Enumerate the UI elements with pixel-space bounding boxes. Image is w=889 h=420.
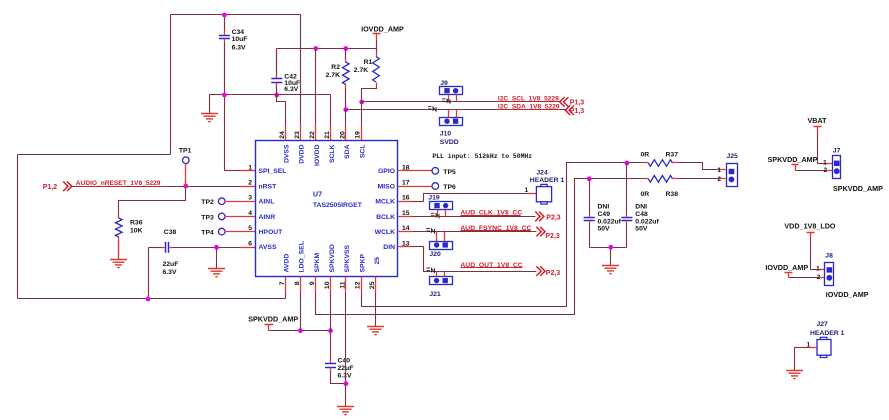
node C49 junction xyxy=(587,176,592,181)
svg-text:nRST: nRST xyxy=(259,183,278,190)
svg-text:R37: R37 xyxy=(666,152,679,159)
svg-text:U7: U7 xyxy=(313,190,322,199)
svg-text:BCLK: BCLK xyxy=(376,214,395,221)
wire SCLK drop to pin 21 xyxy=(330,95,332,125)
svg-text:DNI: DNI xyxy=(635,203,647,210)
wire SPKVSS pin 11 drop xyxy=(345,277,347,293)
wire IOVDD drop to pin 22 xyxy=(315,49,317,125)
resistor R37 0R xyxy=(644,162,649,164)
svg-text:SPKP: SPKP xyxy=(360,254,367,273)
svg-text:1: 1 xyxy=(248,164,252,171)
svg-text:HEADER 1: HEADER 1 xyxy=(530,177,565,184)
svg-text:2: 2 xyxy=(248,180,252,187)
svg-text:J21: J21 xyxy=(429,291,441,298)
capacitor C48 DNI xyxy=(626,163,628,214)
svg-text:TP5: TP5 xyxy=(443,169,456,176)
svg-text:IOVDD_AMP: IOVDD_AMP xyxy=(826,290,869,299)
wire SDA drop to pin 20 xyxy=(345,110,347,125)
svg-text:TAS2505IRGET: TAS2505IRGET xyxy=(313,202,363,209)
wire AUD_OUT net (DIN pin 13) xyxy=(399,246,413,248)
svg-text:6: 6 xyxy=(248,240,252,247)
svg-text:6.3V: 6.3V xyxy=(232,45,246,52)
svg-text:IOVDD_AMP: IOVDD_AMP xyxy=(361,25,404,34)
node IOVDD pin junction xyxy=(313,46,318,51)
svg-text:6.3V: 6.3V xyxy=(284,86,298,93)
svg-text:PLL input: 512kHz to 50MHz: PLL input: 512kHz to 50MHz xyxy=(432,153,532,160)
svg-text:IOVDD_AMP: IOVDD_AMP xyxy=(765,263,808,272)
node C42 bottom junction xyxy=(274,93,279,98)
wire MCLK to J24 xyxy=(399,201,413,203)
svg-text:1: 1 xyxy=(816,265,820,272)
svg-text:SVDD: SVDD xyxy=(440,139,459,146)
svg-text:20: 20 xyxy=(339,131,346,139)
svg-text:LDO_SEL: LDO_SEL xyxy=(299,241,306,272)
svg-text:SPI_SEL: SPI_SEL xyxy=(259,168,287,175)
wire I2C_SDA net xyxy=(346,109,566,111)
resistor R38 0R xyxy=(644,178,649,180)
svg-text:J10: J10 xyxy=(440,131,452,138)
svg-text:10K: 10K xyxy=(130,228,143,235)
svg-text:TP3: TP3 xyxy=(201,214,214,221)
wire AVSS net xyxy=(173,247,241,249)
node C48 junction xyxy=(625,161,630,166)
node AVSS ground junction xyxy=(214,245,219,250)
capacitor C42 xyxy=(276,49,278,75)
svg-text:0R: 0R xyxy=(641,152,650,159)
wire J27 pin 1 to ground xyxy=(807,347,817,349)
svg-text:SPKVSS: SPKVSS xyxy=(344,244,351,272)
svg-text:DVDD: DVDD xyxy=(299,144,306,163)
svg-text:J8: J8 xyxy=(825,252,833,259)
wire I2C_SCL net xyxy=(362,101,560,103)
resistor R1 2.7K xyxy=(376,49,378,53)
resistor R36 10K xyxy=(118,214,120,219)
ground xyxy=(216,248,218,269)
svg-text:2.7K: 2.7K xyxy=(354,67,368,74)
capacitor C34 xyxy=(224,15,226,31)
svg-text:1: 1 xyxy=(717,167,721,174)
wire DVSS jog to pin 24 xyxy=(277,95,286,125)
svg-text:SPKVDD: SPKVDD xyxy=(329,244,336,272)
svg-text:0.022uf: 0.022uf xyxy=(635,218,659,225)
test point TP6 (MISO pin 17) xyxy=(399,186,433,188)
test point TP5 (GPIO pin 18) xyxy=(399,170,433,172)
off-page connector P1,3 (SCL) xyxy=(560,97,569,107)
svg-text:15: 15 xyxy=(402,210,410,217)
svg-text:AVDD: AVDD xyxy=(284,254,291,273)
svg-text:MISO: MISO xyxy=(378,183,395,190)
wire SPKM net (pin 9) xyxy=(315,277,317,293)
svg-text:2: 2 xyxy=(717,176,721,183)
svg-text:6.3V: 6.3V xyxy=(163,269,177,276)
svg-text:GPIO: GPIO xyxy=(378,168,395,175)
ground xyxy=(610,248,612,266)
svg-text:17: 17 xyxy=(402,180,410,187)
svg-text:2.7K: 2.7K xyxy=(326,72,340,79)
ground xyxy=(110,260,127,268)
capacitor C40 xyxy=(330,360,332,364)
node R2 top junction xyxy=(343,46,348,51)
wire ground rail y=95 xyxy=(210,94,331,96)
jumper J10 xyxy=(440,118,463,126)
svg-text:C40: C40 xyxy=(338,357,351,364)
svg-text:7: 7 xyxy=(279,281,286,285)
jumper J21 xyxy=(427,268,435,272)
svg-text:AVSS: AVSS xyxy=(259,244,277,251)
svg-text:2: 2 xyxy=(817,274,821,281)
svg-text:25: 25 xyxy=(374,257,381,265)
svg-text:DNI: DNI xyxy=(598,203,610,210)
svg-text:4: 4 xyxy=(248,210,252,217)
svg-text:P1,3: P1,3 xyxy=(570,100,585,107)
svg-text:22uF: 22uF xyxy=(163,261,179,268)
wire DVDD drop to pin 23 xyxy=(300,15,302,125)
svg-text:SCLK: SCLK xyxy=(329,144,336,163)
wire IOVDD rail y=48.5 xyxy=(277,48,377,50)
svg-text:SDA: SDA xyxy=(344,144,351,158)
wire VDD_1V8_LDO to J8 pin 1 xyxy=(811,269,817,271)
svg-text:P2,3: P2,3 xyxy=(546,270,561,277)
svg-text:J20: J20 xyxy=(429,251,441,258)
svg-text:P2,3: P2,3 xyxy=(546,214,561,221)
wire AUD_FSYNC net (WCLK pin 14) xyxy=(399,231,413,233)
svg-text:J24: J24 xyxy=(536,169,548,176)
wire IOVDD_AMP to J8 pin 2 xyxy=(789,277,817,279)
wire SPI_SEL feed x=224.4 xyxy=(224,95,226,171)
svg-text:TP4: TP4 xyxy=(201,230,214,237)
svg-text:0R: 0R xyxy=(641,191,650,198)
svg-text:IOVDD: IOVDD xyxy=(314,144,321,166)
node SPKVSS/C40 junction xyxy=(344,381,349,386)
wire VBAT to J7 pin 1 xyxy=(818,163,825,165)
svg-text:C49: C49 xyxy=(598,211,611,218)
svg-text:TP1: TP1 xyxy=(179,147,192,154)
svg-text:24: 24 xyxy=(279,131,286,139)
svg-text:J19: J19 xyxy=(428,194,440,201)
svg-text:J7: J7 xyxy=(833,147,841,154)
svg-text:SPKVDD_AMP: SPKVDD_AMP xyxy=(833,184,883,193)
svg-text:0.022uf: 0.022uf xyxy=(598,218,622,225)
wire C40 bottom jog xyxy=(331,372,346,384)
wire SPKVDD_AMP to J7 pin 2 xyxy=(796,170,825,172)
svg-text:50V: 50V xyxy=(635,226,648,233)
wire thermal pad 25 to ground xyxy=(375,277,377,293)
svg-text:SCL: SCL xyxy=(360,145,367,159)
wire C38 riser x=148 xyxy=(148,248,150,299)
svg-text:19: 19 xyxy=(355,131,362,139)
resistor R2 2.7K xyxy=(345,49,347,59)
wire R37 to J25 pin 1 xyxy=(678,163,718,170)
wire SCL drop to pin 19 xyxy=(361,102,363,125)
svg-text:R1: R1 xyxy=(364,59,373,66)
svg-text:SPKM: SPKM xyxy=(314,253,321,273)
svg-text:DVSS: DVSS xyxy=(284,144,291,163)
wire SPKVDD_AMP rail y=330.7 xyxy=(269,330,331,332)
svg-text:12: 12 xyxy=(355,281,362,289)
wire AVDD pin 7 drop xyxy=(285,293,287,299)
wire AVDD/DVDD top rail xyxy=(171,14,301,16)
wire LDO_SEL pin 8 drop xyxy=(300,277,302,293)
wire far-left riser x=17.6 xyxy=(17,155,19,299)
svg-text:J27: J27 xyxy=(817,321,829,328)
off-page connector P1,3 (SDA) xyxy=(565,105,574,115)
jumper J20 xyxy=(427,229,435,233)
IC U7 TAS2505IRGET body xyxy=(256,141,398,277)
svg-text:6.3V: 6.3V xyxy=(338,373,352,380)
svg-text:1: 1 xyxy=(823,159,827,166)
node LDO_SEL junction xyxy=(298,328,303,333)
wire AUD_CLK net (BCLK pin 15) xyxy=(399,216,413,218)
node C34 bottom junction xyxy=(222,93,227,98)
svg-text:1: 1 xyxy=(525,187,529,194)
svg-text:VDD_1V8_LDO: VDD_1V8_LDO xyxy=(784,222,836,231)
off-page connector P2,3 (AUD_CLK) xyxy=(535,212,544,222)
svg-text:3: 3 xyxy=(248,195,252,202)
off-page connector P2,3 (AUD_OUT) xyxy=(536,266,545,276)
off-page connector P2,3 (AUD_FSYNC) xyxy=(536,227,545,237)
svg-text:10uF: 10uF xyxy=(232,36,248,43)
svg-text:SPKVDD_AMP: SPKVDD_AMP xyxy=(768,155,818,164)
wire R1 bottom jog to SCL xyxy=(362,87,377,102)
svg-text:MCLK: MCLK xyxy=(375,199,395,206)
node cap ground junction xyxy=(608,245,613,250)
svg-text:AINR: AINR xyxy=(259,214,276,221)
node SPKVDD junction xyxy=(328,328,333,333)
svg-text:16: 16 xyxy=(402,195,410,202)
wire y=154.8 left jog xyxy=(18,154,171,156)
svg-text:P1,2: P1,2 xyxy=(43,184,58,191)
node C34 top junction xyxy=(222,13,227,18)
node C38/AVDD junction xyxy=(146,297,151,302)
ground xyxy=(367,327,384,335)
svg-text:R36: R36 xyxy=(130,220,143,227)
wire AVDD bottom rail y=299 xyxy=(18,298,286,300)
node TP1 junction xyxy=(183,184,188,189)
ground xyxy=(209,95,211,114)
node SCL junction xyxy=(359,100,364,105)
wire R38 to J25 pin 2 xyxy=(678,178,718,180)
svg-text:AINL: AINL xyxy=(259,199,275,206)
svg-text:SPKVDD_AMP: SPKVDD_AMP xyxy=(248,315,298,324)
svg-text:HPOUT: HPOUT xyxy=(259,229,284,236)
svg-text:TP6: TP6 xyxy=(443,184,456,191)
svg-text:WCLK: WCLK xyxy=(375,229,395,236)
wire left riser x=171 xyxy=(170,15,172,155)
svg-text:21: 21 xyxy=(324,131,331,139)
svg-text:22: 22 xyxy=(309,131,316,139)
ground xyxy=(345,384,347,407)
svg-text:AUDIO_nRESET_1V8_5229: AUDIO_nRESET_1V8_5229 xyxy=(76,180,161,187)
svg-text:J25: J25 xyxy=(727,153,739,160)
ground xyxy=(786,371,803,379)
svg-text:C38: C38 xyxy=(164,229,177,236)
svg-text:P1,3: P1,3 xyxy=(570,108,585,115)
svg-text:R2: R2 xyxy=(331,64,340,71)
capacitor C49 DNI xyxy=(589,179,591,214)
svg-text:23: 23 xyxy=(294,131,301,139)
svg-text:DIN: DIN xyxy=(383,244,395,251)
wire nRST to R36 jog xyxy=(119,187,186,214)
wire SPKP net (pin 12) xyxy=(361,277,363,293)
svg-text:P2,3: P2,3 xyxy=(545,233,560,240)
svg-text:TP2: TP2 xyxy=(201,199,214,206)
wire nRST net xyxy=(72,186,241,188)
wire SPKVDD pin 10 drop xyxy=(330,277,332,293)
svg-text:2: 2 xyxy=(823,167,827,174)
svg-text:R38: R38 xyxy=(666,191,679,198)
node SDA junction xyxy=(343,107,348,112)
capacitor C38 xyxy=(162,247,165,249)
svg-text:C48: C48 xyxy=(635,211,648,218)
svg-text:VBAT: VBAT xyxy=(808,116,828,125)
svg-text:5: 5 xyxy=(248,225,252,232)
wire C49/C48 bottom tie xyxy=(590,247,627,249)
svg-text:HEADER 1: HEADER 1 xyxy=(810,330,845,337)
svg-text:50V: 50V xyxy=(598,226,611,233)
